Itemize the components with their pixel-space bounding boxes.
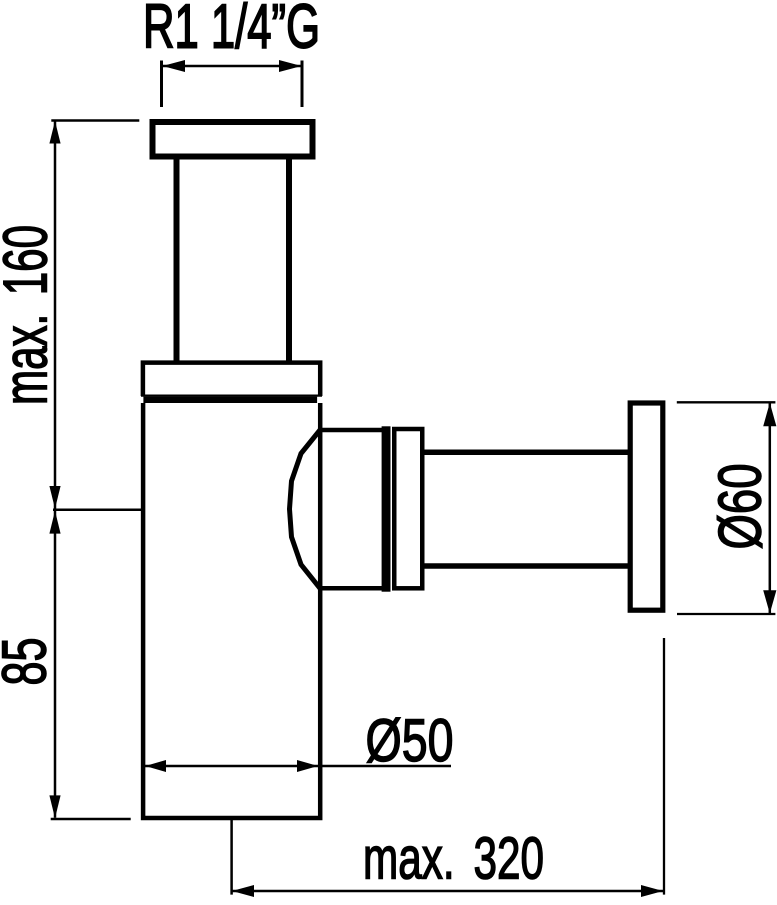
inlet pipe right wall [286,158,292,361]
svg-text:85: 85 [0,638,60,686]
dimension D60: down arrowhead [763,590,776,613]
outlet pipe top wall [424,449,629,455]
dimension R1: right arrowhead [279,60,302,72]
dimension R1: right extension line [301,61,304,108]
outlet pipe bottom wall [424,563,629,569]
trap body outline [143,403,320,818]
svg-text:Ø50: Ø50 [366,707,454,774]
outlet nut top edge [318,428,385,433]
outlet nut left profile [290,430,321,588]
dimension max320: left arrowhead [232,885,254,897]
wall flange [630,403,663,610]
outlet ring (thick bar) [382,426,391,591]
inlet pipe left wall [174,158,180,361]
svg-text:max. 320: max. 320 [363,826,544,892]
dimension D50: left arrowhead [145,760,166,772]
dimension D50: dimension line [145,765,451,768]
dimension D60: up arrowhead [763,403,776,427]
dimension max160: up arrowhead [49,121,60,144]
dimension max160/85: dimension line [54,121,57,818]
dimension D60: top extension line [677,401,776,403]
dimension R1: dimension line [163,65,301,68]
dimension max320: dimension line [232,890,663,893]
outlet collar ring [394,429,422,588]
svg-text:max. 160: max. 160 [0,225,61,405]
outlet nut fill [290,430,386,588]
dimension D50: right arrowhead [297,760,318,772]
top flange of inlet pipe [153,122,313,157]
dimension max320: left extension line [230,818,233,895]
dimension max160: top extension line [51,119,139,122]
dimension max160/85: middle extension line [53,509,141,512]
dimension max160: down arrowhead [49,486,60,509]
dimension 85: down arrowhead [49,795,60,818]
dimension max320: right arrowhead [641,885,663,897]
dimension 85: bottom extension line [51,818,131,821]
svg-text:Ø60: Ø60 [707,464,774,550]
dimension D60: dimension line [769,402,772,614]
dimension 85: up arrowhead [49,511,60,534]
gasket band [143,397,317,403]
outlet nut bottom edge [318,586,385,591]
body top flange bottom edge [141,395,322,397]
dimension R1: left arrowhead [163,60,186,72]
dimension max320: right extension line [663,638,665,895]
body top flange [143,363,320,396]
dimension D60: bottom extension line [677,613,775,615]
svg-text:R1 1/4”G: R1 1/4”G [143,0,320,62]
dimension R1: left extension line [160,61,163,108]
